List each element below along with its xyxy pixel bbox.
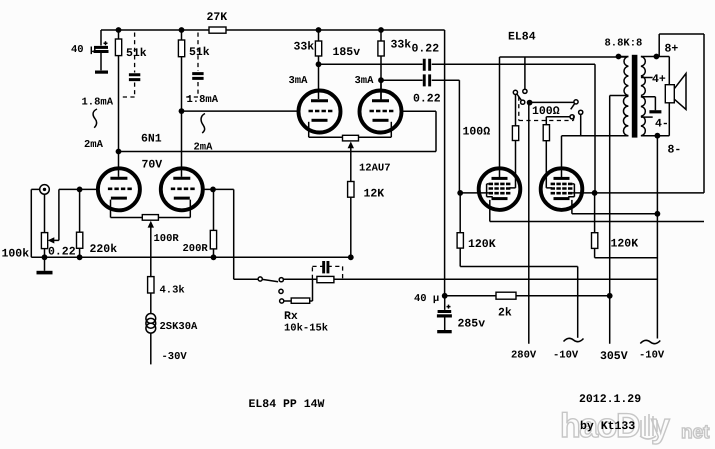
wire 12AU7 cathode left [309,136,343,138]
resistor 33k left [315,30,321,64]
svg-text:-10V: -10V [639,350,665,362]
tube 6N1 triode B [161,111,203,217]
svg-text:2mA: 2mA [84,139,104,151]
switch NFB select [234,277,284,303]
svg-text:8.8K:8: 8.8K:8 [605,38,643,50]
tap secondary CT with ground [641,97,662,114]
svg-text:185v: 185v [333,46,361,59]
resistor 4.3k tail [148,277,154,314]
node D screen supply [527,100,574,106]
resistor 2k filter [445,292,610,299]
capacitor bypass dashed 51k-1 [120,33,141,98]
tube EL84 pentode 2 [541,136,583,214]
tube 12AU7 triode A [299,64,341,137]
node pot ground [42,254,48,260]
svg-text:3mA: 3mA [289,75,309,87]
resistor 33k right [378,30,384,100]
svg-text:1.8mA: 1.8mA [187,94,219,106]
resistor Rx lower 10k-15k [284,279,313,303]
wire EL84 grid2 and NFB return [572,34,704,193]
wire 6N1 cathode left [111,217,143,219]
wire -10V right drop [656,136,658,339]
svg-text:12AU7: 12AU7 [359,163,391,175]
resistor 100R screen 1 [510,95,519,188]
svg-text:10k-15k: 10k-15k [284,323,328,335]
dashed gang link [519,97,574,121]
capacitor bypass dashed 51k-2 [183,33,204,98]
svg-text:1.8mA: 1.8mA [82,97,114,109]
wire 6N1 anode2 node [179,108,185,114]
node 12AU7 anode1 [316,61,322,67]
capacitor 0.22 upper [423,59,431,71]
wire cathode 2 to ground rail [572,213,658,215]
svg-text:40 μ: 40 μ [71,44,96,56]
node top-4 [378,27,384,33]
wire 6N1 grid2 right [203,189,234,279]
resistor 27K [209,27,226,33]
wire B+ top rail [101,30,445,46]
transformer core [632,55,638,138]
resistor 120K grid 1 [457,193,578,267]
ground bar under 40u [95,71,108,74]
switch UL right pole E [571,100,578,110]
resistor 100R screen 2 [543,125,552,188]
svg-text:8-: 8- [668,144,682,157]
node 12AU7 anode2 [378,77,384,83]
ground symbol [37,257,53,274]
wire grid coupling to EL84 g2 right [594,64,596,193]
switch UL right contact F [546,115,574,125]
node top-3 [316,27,322,33]
tilde AC mark right [640,340,660,343]
transistor 2SK30A CCS [146,314,156,365]
svg-text:40 μ: 40 μ [414,293,439,305]
watermark haoDIY.net [560,407,710,445]
svg-text:3mA: 3mA [355,75,375,87]
node 6N1 anode1 [116,149,122,155]
ground bar under 40u-2 [437,330,452,333]
wire grid coupling to EL84 g1 left [458,80,460,193]
ground bus wire [31,256,351,258]
node 220k ground [77,254,83,260]
svg-text:2k: 2k [498,307,512,320]
wire B+ right drop [444,30,446,296]
node cathode2 ground [655,211,661,217]
svg-text:-30V: -30V [162,351,188,363]
potentiometer 100R balance [142,215,158,277]
switch UL left contact B triode [523,57,527,93]
resistor 120K grid 2 [592,193,658,258]
svg-text:4+: 4+ [652,73,666,86]
node top-1 [116,27,122,33]
svg-text:100Ω: 100Ω [463,126,491,139]
svg-text:by Kt133: by Kt133 [580,420,635,433]
svg-text:8+: 8+ [665,43,679,56]
potentiometer 100k volume [41,189,98,257]
node EL84 grid2 [592,190,598,196]
wire -10V left drop [577,267,579,338]
svg-text:-10V: -10V [553,350,579,362]
wire 280V drop [528,103,530,344]
svg-text:6N1: 6N1 [141,133,162,146]
node 12K ground [348,254,354,260]
wire EL84 grid1 [460,192,488,194]
capacitor 40u 285v [437,296,452,330]
svg-text:100Ω: 100Ω [532,105,560,118]
svg-text:2SK30A: 2SK30A [160,321,199,333]
node secondary top [654,54,660,60]
capacitor 0.22 lower [423,74,431,86]
svg-text:12K: 12K [364,188,385,201]
svg-text:33k: 33k [294,41,315,54]
transformer 8.8K:8 primary [562,57,629,136]
transformer secondary [641,57,645,136]
resistor 51k second [178,30,184,111]
svg-text:51k: 51k [126,47,147,60]
wire coupling lower [381,79,459,81]
node 305V at 2k [607,293,613,299]
svg-text:70V: 70V [142,159,163,172]
svg-text:100k: 100k [2,248,30,261]
svg-text:220k: 220k [90,243,118,256]
tube EL84 pentode 1 [479,168,521,221]
wire 6N1 cathode right [158,217,190,219]
resistor 12K common cathode [348,182,354,258]
potentiometer 100R 12AU7 balance [343,135,359,181]
tilde AC mark left [564,338,584,341]
node 6N1 grid2 [210,187,216,193]
capacitor dashed across Rx [312,261,342,279]
wire NFB loop top [659,34,704,57]
capacitor 40u input filter [94,41,109,70]
switch UL right contact G tap [579,110,583,136]
svg-text:100R: 100R [154,233,180,245]
svg-text:Rx: Rx [284,310,298,323]
tube 12AU7 triode B [360,80,402,137]
svg-text:120K: 120K [468,238,496,251]
svg-text:51k: 51k [189,46,210,59]
wire 305V drop [609,96,611,344]
svg-text:0.22: 0.22 [412,43,440,56]
svg-text:285v: 285v [458,318,486,331]
svg-text:y: y [651,407,670,445]
node grid1 6N1 [77,187,83,193]
svg-text:net: net [681,422,710,443]
tap 4+ [641,77,653,79]
svg-text:120K: 120K [611,238,639,251]
switch UL left contact C [521,100,525,104]
resistor Rx upper [283,276,657,282]
svg-text:EL84 PP 14W: EL84 PP 14W [249,398,325,411]
wire 6N1 anode2 to 12AU7 grid1 [182,110,299,112]
svg-text:4.3k: 4.3k [160,285,185,297]
svg-text:4-: 4- [655,118,669,131]
wire EL84 plate1 rail [500,57,628,178]
node secondary bottom [655,133,661,139]
node plate rail at transformer [616,54,622,60]
current squiggle 6N1 left [93,109,97,128]
tap 4- [641,116,653,118]
svg-text:0.22: 0.22 [48,246,76,259]
resistor 220k grid leak [77,189,83,257]
current squiggle 6N1 right [201,114,205,134]
input jack [31,185,49,258]
node EL84 grid1 [457,190,463,196]
node top-2 [179,27,185,33]
wire cathode 1 to NFB rail [490,221,704,223]
svg-text:2mA: 2mA [194,142,214,154]
wire 6N1 anode1 to 12AU7 grid2 [119,111,437,151]
tube 6N1 triode A [98,152,140,218]
switch UL left pole A [513,90,521,100]
svg-text:27K: 27K [207,11,228,24]
node 40u-2 filter [442,293,448,299]
svg-text:33k: 33k [391,39,412,52]
resistor 51k first stage [115,30,121,152]
resistor 200R [210,189,216,257]
svg-text:200R: 200R [183,243,209,255]
speaker [665,57,686,136]
svg-text:0.22: 0.22 [413,93,441,106]
wire secondary bottom 8- [641,135,669,137]
wire coupling upper [319,63,596,65]
wire secondary top 8+ [641,56,669,58]
svg-text:280V: 280V [511,350,537,362]
node 200R ground [211,254,217,260]
svg-text:2012.1.29: 2012.1.29 [579,393,641,406]
wire 12AU7 cathode right [359,136,392,138]
svg-text:305V: 305V [600,350,628,363]
svg-text:EL84: EL84 [508,31,536,44]
